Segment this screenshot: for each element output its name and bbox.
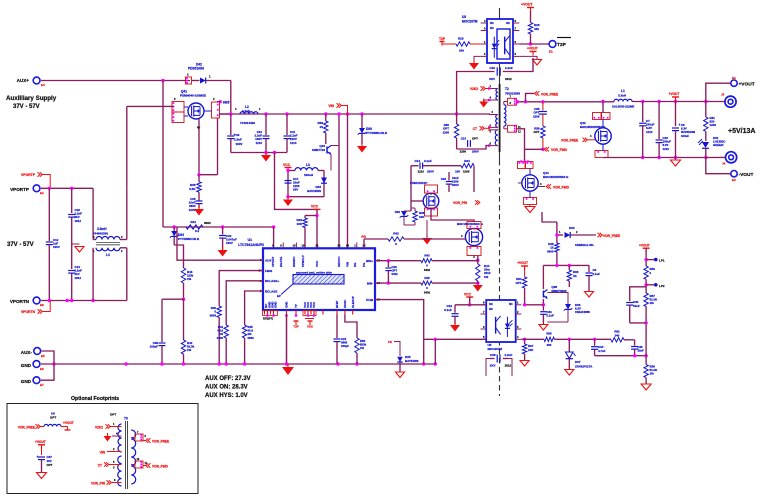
capacitor C13 OPT 200V bbox=[467, 140, 469, 147]
capacitor C9 1.5uF 100V bbox=[230, 114, 232, 135]
zener D34 PTVS58KC3LR bbox=[173, 227, 175, 231]
ground arrow T2 pin4 bbox=[484, 99, 489, 101]
ground triangle D35 bbox=[396, 372, 405, 378]
svg-text:100uF: 100uF bbox=[681, 134, 689, 138]
ground triangle R58 bbox=[641, 384, 651, 390]
svg-text:1812: 1812 bbox=[75, 276, 82, 280]
svg-text:13K: 13K bbox=[296, 222, 302, 226]
ground triangle C31 bbox=[539, 325, 548, 331]
wire VPORTN jog to choke bbox=[92, 248, 94, 301]
svg-text:T2P: T2P bbox=[557, 42, 567, 48]
wire Q41 source pin bbox=[198, 119, 200, 175]
resistor R44 20m 2010 1% bbox=[477, 256, 479, 264]
net label VOR_FWD upper bbox=[547, 147, 550, 151]
svg-text:R29: R29 bbox=[458, 37, 464, 41]
svg-text:C40: C40 bbox=[489, 66, 495, 70]
U1 pin BIN+ wire resistor R43 0 0402 bbox=[375, 260, 421, 262]
svg-text:E4: E4 bbox=[41, 83, 45, 87]
svg-text:T2P: T2P bbox=[293, 325, 299, 329]
svg-text:ITHB: ITHB bbox=[366, 298, 374, 302]
svg-text:D30: D30 bbox=[569, 226, 575, 230]
svg-text:16V: 16V bbox=[293, 188, 298, 192]
ground bus y=364 bbox=[41, 363, 435, 365]
svg-text:E1: E1 bbox=[40, 191, 44, 195]
svg-text:750313588: 750313588 bbox=[505, 92, 520, 96]
wire D34 jog to R43 bbox=[174, 245, 183, 268]
T2 secondary winding bbox=[504, 105, 506, 127]
capacitor C39 100pF bbox=[162, 298, 184, 300]
svg-text:200V: 200V bbox=[472, 150, 479, 154]
capacitor C7 100uF 6.3V 1210 bbox=[642, 102, 644, 123]
ground triangle secondary bbox=[675, 158, 677, 161]
capacitor C13b 100uF 6.3V 1210 bbox=[658, 102, 660, 140]
wire Q38 to opto LED bbox=[525, 304, 544, 306]
wire secondary top rail bbox=[517, 101, 604, 103]
svg-text:10nF: 10nF bbox=[633, 304, 640, 308]
capacitor C34 4.7nF bbox=[594, 339, 596, 345]
terminal -VOUT E3 bbox=[731, 171, 737, 177]
svg-text:+VOUT: +VOUT bbox=[63, 421, 74, 425]
svg-text:1812: 1812 bbox=[505, 364, 512, 368]
svg-text:NC: NC bbox=[489, 307, 493, 311]
transistor Q38 MMBT3906 bbox=[542, 265, 544, 289]
svg-text:3.3mH: 3.3mH bbox=[97, 227, 107, 231]
svg-text:U1: U1 bbox=[248, 238, 252, 242]
svg-text:VCC: VCC bbox=[307, 325, 314, 329]
svg-text:OPT: OPT bbox=[47, 463, 53, 467]
svg-text:V2K2: V2K2 bbox=[95, 426, 103, 430]
svg-text:1206: 1206 bbox=[443, 130, 450, 134]
svg-text:PDS5100H: PDS5100H bbox=[188, 67, 205, 71]
svg-text:1%: 1% bbox=[650, 372, 655, 376]
capacitor C12 1uF 100V bbox=[48, 188, 50, 241]
svg-text:VIN: VIN bbox=[346, 262, 350, 267]
wire VPORTP down to L4 bbox=[92, 188, 94, 239]
capacitor C19 0.1uF bbox=[454, 305, 456, 313]
zener D39 PTVS58KC3LR bbox=[361, 114, 363, 128]
test point LP2 bbox=[646, 284, 654, 286]
ground triangle C6 bbox=[585, 292, 594, 298]
wire AUX+ rail y=80 bbox=[41, 80, 190, 82]
ground triangle D37 bbox=[565, 370, 574, 376]
ground arrow C25 bbox=[194, 209, 204, 216]
U1 pin ROSC resistor R50 823k bbox=[345, 315, 357, 339]
wire Q40 source to Q46 drain bbox=[425, 208, 438, 216]
U1 top pin stubs bbox=[282, 243, 284, 249]
U1 pin RCLASS wire, resistor R45 30.9 1% bbox=[245, 291, 263, 325]
svg-text:OPT: OPT bbox=[110, 413, 116, 417]
resistor R67 10K bbox=[524, 339, 526, 344]
svg-text:AUX OFF: 27.3V: AUX OFF: 27.3V bbox=[205, 376, 251, 382]
U1 pin AUX wire bbox=[177, 227, 263, 260]
svg-text:R65: R65 bbox=[546, 332, 552, 336]
svg-text:VIN: VIN bbox=[328, 104, 334, 108]
resistor R27 13K bbox=[305, 215, 317, 217]
svg-text:100V: 100V bbox=[189, 208, 196, 212]
svg-text:VPORTP: VPORTP bbox=[10, 187, 29, 192]
svg-text:BFBT: BFBT bbox=[335, 300, 339, 308]
svg-text:VOR_FWD: VOR_FWD bbox=[152, 465, 169, 469]
wire D42 to HB5 node bbox=[230, 81, 232, 115]
svg-text:BSC160N10NS3 G: BSC160N10NS3 G bbox=[457, 222, 484, 226]
capacitor C6 0.1uF bbox=[588, 265, 590, 272]
svg-text:+VOUT: +VOUT bbox=[521, 3, 533, 7]
svg-text:T3: T3 bbox=[124, 417, 128, 421]
svg-text:R43: R43 bbox=[424, 254, 430, 258]
svg-text:10k: 10k bbox=[459, 49, 464, 53]
svg-text:100pF: 100pF bbox=[150, 345, 159, 349]
svg-text:-VOUT: -VOUT bbox=[739, 172, 754, 178]
svg-text:NC: NC bbox=[490, 21, 494, 25]
resistor R41 0603 bbox=[186, 225, 203, 229]
svg-text:SG: SG bbox=[353, 262, 357, 267]
wire snubber ends bbox=[410, 166, 412, 201]
resistor R66 1K bbox=[568, 265, 570, 270]
svg-text:22nF: 22nF bbox=[638, 349, 645, 353]
svg-text:1812: 1812 bbox=[75, 219, 82, 223]
svg-text:CT: CT bbox=[98, 464, 102, 468]
ground triangle C37 bbox=[37, 473, 47, 479]
svg-text:NC: NC bbox=[489, 302, 493, 306]
svg-text:200V: 200V bbox=[452, 183, 459, 187]
resistor R34 100 1206 bbox=[461, 164, 474, 168]
resistor R64 OPT bbox=[522, 277, 526, 288]
resistor R65 330 bbox=[544, 337, 554, 341]
capacitor C35 OPT 1206 bbox=[542, 102, 544, 111]
svg-text:E8: E8 bbox=[40, 303, 44, 307]
svg-text:0603: 0603 bbox=[248, 336, 255, 340]
svg-text:LTC7841AHUFD: LTC7841AHUFD bbox=[238, 243, 264, 247]
wire VCC loop bbox=[287, 171, 289, 197]
U5 pin stubs bbox=[481, 304, 487, 306]
wire VPORT pin drop bbox=[273, 227, 275, 248]
wire Q41 source down x=217.5 bbox=[217, 118, 219, 175]
resistor R38 OPT bbox=[541, 126, 545, 138]
U3 pin stubs bbox=[481, 22, 487, 24]
svg-text:C13: C13 bbox=[461, 137, 467, 141]
isolation barrier dashed line bbox=[499, 8, 501, 160]
svg-text:BIN-: BIN- bbox=[367, 281, 373, 285]
capacitor C10 2.2uF 100V 1210 bbox=[265, 114, 267, 135]
capacitor C26 OPT 0402 bbox=[387, 261, 389, 267]
wire VCC stem to U1 VCC pin bbox=[316, 209, 318, 248]
svg-text:AUX: AUX bbox=[265, 259, 271, 263]
svg-text:E6: E6 bbox=[40, 367, 44, 371]
U1 pin ITHB wire bbox=[375, 300, 424, 364]
capacitor C17 10uF 1206 16V bbox=[285, 180, 292, 182]
svg-text:1210: 1210 bbox=[663, 147, 670, 151]
svg-text:LP2: LP2 bbox=[659, 284, 665, 288]
svg-text:TP: TP bbox=[294, 304, 298, 308]
svg-text:BSC16DN25NS3 G: BSC16DN25NS3 G bbox=[543, 175, 569, 179]
svg-text:0603: 0603 bbox=[217, 336, 224, 340]
svg-text:+VOUT: +VOUT bbox=[739, 82, 755, 88]
resistor R62 240 bbox=[611, 338, 624, 342]
ground arrow Q40 source bbox=[422, 238, 432, 245]
optional footprints border bbox=[7, 404, 198, 494]
svg-text:VOR_FWD: VOR_FWD bbox=[551, 148, 568, 152]
capacitor C18 10nF 1206 200V bbox=[448, 172, 450, 181]
wire VPORTP row bbox=[41, 187, 93, 189]
svg-text:C18: C18 bbox=[441, 177, 447, 181]
svg-text:1210: 1210 bbox=[418, 170, 425, 174]
capacitor C15 0.1uF snubber bbox=[411, 165, 419, 167]
terminal T2P E1 right bbox=[549, 41, 556, 48]
svg-text:T2P: T2P bbox=[439, 37, 446, 41]
svg-text:100uH: 100uH bbox=[304, 173, 313, 177]
svg-text:VPORTP: VPORTP bbox=[21, 173, 36, 177]
T2 secondary pin box 11 12 bbox=[503, 126, 505, 129]
svg-text:VOR_FREE: VOR_FREE bbox=[152, 440, 169, 444]
diode D35 BAT54WS bbox=[397, 357, 403, 362]
svg-text:330: 330 bbox=[547, 343, 552, 347]
resistor R57 51.0K 1% bbox=[644, 293, 648, 307]
svg-text:VCC: VCC bbox=[315, 260, 319, 267]
svg-text:PPBCLY: PPBCLY bbox=[301, 255, 305, 267]
svg-text:0.1uF: 0.1uF bbox=[547, 314, 555, 318]
T2 secondary pin box 7 8 bbox=[503, 102, 505, 105]
svg-text:VIN: VIN bbox=[100, 451, 106, 455]
diode D33 BAV19WS bbox=[321, 178, 327, 184]
svg-text:AUX ON: 28.3V: AUX ON: 28.3V bbox=[205, 385, 248, 391]
diode D32 and resistor R36 10K gate clamp bbox=[410, 201, 412, 211]
wire L4 right side up bbox=[120, 239, 127, 241]
wire U3 pin6 to T2P terminal bbox=[519, 43, 551, 45]
svg-text:+VOUT: +VOUT bbox=[527, 47, 538, 51]
svg-text:HGATE: HGATE bbox=[279, 257, 283, 267]
svg-text:OPT: OPT bbox=[516, 281, 522, 285]
svg-text:6.2: 6.2 bbox=[195, 229, 200, 233]
U1 bottom pin pads bbox=[264, 310, 266, 315]
wire VIN down to U1 bbox=[347, 114, 349, 248]
svg-text:PSMN040-100MSE: PSMN040-100MSE bbox=[180, 94, 206, 98]
svg-text:NC: NC bbox=[490, 26, 494, 30]
terminal J4 bbox=[726, 152, 737, 163]
T2 core bbox=[499, 84, 501, 152]
resistor R31 620 1206 bbox=[705, 102, 707, 118]
resistor R48 10 0603 bbox=[542, 212, 557, 222]
svg-text:Auxilliary Supply: Auxilliary Supply bbox=[6, 95, 57, 102]
wire secondary bottom rail bbox=[603, 157, 706, 159]
svg-text:10K: 10K bbox=[528, 348, 534, 352]
svg-text:1206: 1206 bbox=[463, 170, 470, 174]
svg-text:VCC: VCC bbox=[312, 302, 316, 308]
svg-text:0402: 0402 bbox=[424, 291, 431, 295]
LED D31 LH1381C GREEN bbox=[705, 131, 707, 141]
wire SHVCC down to U1 bbox=[338, 114, 340, 248]
svg-text:2KV: 2KV bbox=[490, 364, 496, 368]
capacitor C14 2.2nF 2kV 1812 bbox=[71, 244, 73, 269]
svg-text:C9: C9 bbox=[236, 133, 240, 137]
net label VOR_FREE right bbox=[598, 233, 601, 237]
capacitor C31 0.1uF bbox=[540, 311, 546, 313]
svg-text:FDMC2612P: FDMC2612P bbox=[410, 181, 427, 185]
svg-text:D32: D32 bbox=[395, 210, 401, 214]
svg-text:10K: 10K bbox=[419, 215, 425, 219]
ground arrow C20 bbox=[218, 250, 228, 257]
svg-text:0603: 0603 bbox=[547, 249, 554, 253]
svg-text:VPORTN: VPORTN bbox=[10, 299, 30, 304]
svg-text:VPORT: VPORT bbox=[271, 256, 275, 267]
svg-text:VCC: VCC bbox=[311, 205, 319, 209]
svg-text:1%: 1% bbox=[484, 275, 489, 279]
svg-text:BIN+: BIN+ bbox=[366, 259, 373, 263]
diode D42 PDS5100H bbox=[186, 77, 192, 84]
svg-text:RCLASS+: RCLASS+ bbox=[265, 279, 279, 283]
svg-text:CT: CT bbox=[473, 127, 477, 131]
wire Q46 source to R44 sense bbox=[473, 256, 475, 259]
svg-text:1210: 1210 bbox=[256, 141, 263, 145]
capacitor C8 polarized 100uF bbox=[675, 102, 677, 127]
resistor R35 3.3K bbox=[197, 173, 200, 176]
wire T2 pin6 bottom bbox=[457, 146, 489, 149]
wire Q44 gate label VOR_FWD bbox=[538, 186, 545, 188]
svg-text:VOR_PRI: VOR_PRI bbox=[91, 482, 105, 486]
svg-text:0402: 0402 bbox=[424, 268, 431, 272]
U1 pin BFBT capacitor C23 100pF bbox=[336, 315, 338, 339]
svg-text:1%: 1% bbox=[187, 277, 192, 281]
wire gate aux row bbox=[543, 264, 589, 266]
resistor R29 10k bbox=[442, 43, 456, 45]
svg-text:100V: 100V bbox=[226, 241, 233, 245]
capacitor C25 10nF 0603 100V bbox=[198, 192, 200, 200]
wire AUX sense row y=227 bbox=[163, 226, 274, 228]
svg-text:0.1uF: 0.1uF bbox=[424, 159, 432, 163]
zener D36 6.2V CMHZ4688 bbox=[547, 293, 568, 305]
svg-text:100V: 100V bbox=[53, 245, 60, 249]
ground arrow VCC bbox=[283, 200, 293, 207]
svg-text:R42: R42 bbox=[393, 232, 399, 236]
svg-text:3.3K: 3.3K bbox=[189, 187, 196, 191]
svg-text:37V - 57V: 37V - 57V bbox=[7, 242, 34, 248]
svg-text:E1: E1 bbox=[549, 50, 553, 54]
svg-text:V2K2: V2K2 bbox=[470, 87, 478, 91]
capacitor C28 22nF bbox=[634, 340, 636, 346]
op-amp U5 MOC207M optocoupler bbox=[486, 300, 516, 342]
svg-text:VOR_FREE: VOR_FREE bbox=[561, 138, 578, 142]
ground arrow below input caps bbox=[261, 155, 271, 162]
svg-text:VPORTN: VPORTN bbox=[21, 310, 36, 314]
svg-text:SHVCC: SHVCC bbox=[337, 256, 341, 267]
svg-text:AUX HYS: 1.0V: AUX HYS: 1.0V bbox=[205, 393, 248, 399]
resistor R26 43k bbox=[530, 34, 532, 44]
svg-text:BAT54WS: BAT54WS bbox=[405, 359, 419, 363]
test point LP1 bbox=[646, 259, 654, 261]
svg-text:20: 20 bbox=[320, 125, 324, 129]
svg-text:1206: 1206 bbox=[533, 114, 540, 118]
svg-text:3KV: 3KV bbox=[489, 77, 495, 81]
svg-text:+5V/13A: +5V/13A bbox=[728, 128, 755, 135]
svg-text:1206: 1206 bbox=[710, 123, 717, 127]
svg-text:C14: C14 bbox=[414, 159, 420, 163]
svg-text:PTVS58KC3LR: PTVS58KC3LR bbox=[366, 131, 388, 135]
svg-text:LP1: LP1 bbox=[659, 259, 665, 263]
svg-text:1206: 1206 bbox=[460, 150, 467, 154]
wire Q41 gate drive bbox=[127, 105, 174, 107]
svg-text:MOC207M: MOC207M bbox=[462, 20, 478, 24]
T3 secondary pin boxes bbox=[135, 434, 143, 441]
svg-text:RCLASS: RCLASS bbox=[265, 289, 277, 293]
T2 primary winding 3-6 bbox=[495, 130, 498, 146]
wire C40 left riser bbox=[457, 72, 495, 115]
svg-text:1210: 1210 bbox=[646, 130, 653, 134]
svg-text:CMMSH1-40L: CMMSH1-40L bbox=[575, 243, 594, 247]
Q44 source to ground bbox=[524, 198, 537, 205]
resistor R56 0 bbox=[644, 266, 648, 279]
ground triangle R67 bbox=[520, 361, 529, 367]
svg-text:MOC207M: MOC207M bbox=[488, 347, 503, 351]
U1 GND pin to ground bus bbox=[286, 314, 288, 364]
svg-text:NC: NC bbox=[509, 302, 513, 306]
svg-text:GND: GND bbox=[285, 302, 289, 308]
svg-text:VOR_PRI: VOR_PRI bbox=[453, 201, 467, 205]
capacitor C40 2.2nF 3kV 1812 bbox=[496, 67, 498, 75]
resistor R43 113k 1% bbox=[181, 268, 185, 283]
svg-text:L3: L3 bbox=[306, 163, 310, 167]
shunt ref D37 ZR431F01TA bbox=[568, 339, 570, 352]
wire C40 right to +VOUT bbox=[503, 58, 533, 72]
T2 primary winding 2-5 bbox=[496, 115, 498, 128]
svg-text:C38: C38 bbox=[490, 353, 496, 357]
svg-text:PG: PG bbox=[361, 235, 366, 239]
svg-text:GND: GND bbox=[274, 302, 278, 308]
svg-text:E3: E3 bbox=[732, 178, 736, 182]
svg-text:BAV19WS: BAV19WS bbox=[307, 189, 321, 193]
svg-text:GND: GND bbox=[21, 363, 32, 368]
wire U3 pin2 to ground arrow bbox=[474, 56, 481, 63]
svg-text:240: 240 bbox=[615, 333, 620, 337]
svg-text:L1: L1 bbox=[621, 89, 625, 93]
wire VPORT sense staircase bbox=[275, 153, 318, 210]
svg-text:NC: NC bbox=[506, 21, 510, 25]
svg-text:1%: 1% bbox=[360, 346, 365, 350]
svg-text:HB5: HB5 bbox=[223, 101, 230, 105]
svg-text:OPT: OPT bbox=[472, 137, 478, 141]
svg-text:C28: C28 bbox=[638, 345, 643, 349]
svg-text:J4: J4 bbox=[722, 162, 726, 166]
svg-text:GND: GND bbox=[21, 379, 32, 384]
svg-text:CMHZ4688: CMHZ4688 bbox=[575, 310, 590, 314]
svg-text:100: 100 bbox=[455, 170, 460, 174]
svg-text:AUX-: AUX- bbox=[21, 350, 33, 355]
ground arrow R44 bbox=[473, 285, 483, 292]
U1 pin RCLASS+ wire, resistor R44 64.9 1% bbox=[226, 281, 263, 325]
svg-text:2.2nF: 2.2nF bbox=[505, 353, 513, 357]
resistor R42 52.3k 1% bbox=[181, 340, 185, 354]
svg-text:100pF: 100pF bbox=[341, 344, 349, 348]
svg-text:+VOUT: +VOUT bbox=[669, 92, 680, 96]
svg-text:HSSRC: HSSRC bbox=[292, 256, 296, 267]
wire R43 to R42 bbox=[183, 299, 185, 340]
svg-text:3.3uH: 3.3uH bbox=[618, 94, 626, 98]
node HB5 bbox=[219, 100, 222, 103]
wire VPORTN row bbox=[41, 300, 127, 302]
svg-text:VCC: VCC bbox=[464, 293, 472, 297]
svg-text:R45: R45 bbox=[424, 276, 430, 280]
resistor R30 OPT 1206 bbox=[456, 114, 458, 124]
capacitor C20 0.047uF 100V bbox=[222, 227, 224, 235]
svg-text:OPT: OPT bbox=[534, 130, 540, 134]
svg-text:0.1uF: 0.1uF bbox=[444, 308, 452, 312]
svg-text:+VOUT: +VOUT bbox=[639, 243, 650, 247]
svg-text:1%: 1% bbox=[650, 301, 655, 305]
svg-text:0402: 0402 bbox=[392, 272, 399, 276]
svg-text:U3: U3 bbox=[462, 15, 466, 19]
svg-text:VOR_FWD: VOR_FWD bbox=[553, 186, 570, 190]
U1 pin PG wire and resistor R42 0 bbox=[363, 239, 365, 248]
ground arrow C19 bbox=[450, 325, 460, 332]
svg-text:1%: 1% bbox=[187, 348, 192, 352]
